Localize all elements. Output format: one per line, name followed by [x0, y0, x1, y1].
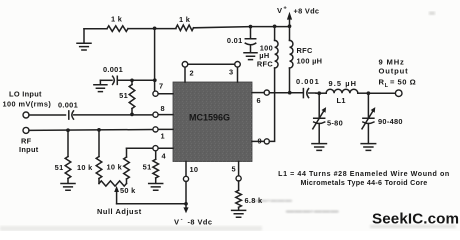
svg-text:——·———: ——·——— [253, 198, 292, 205]
ground (6.8k) [232, 210, 246, 217]
svg-text:90-480: 90-480 [378, 117, 403, 126]
ground (pin4 shunt) [149, 184, 163, 191]
svg-text:V: V [277, 6, 283, 15]
resistor 1 k (right) [176, 25, 194, 31]
wire L1 to node [358, 92, 369, 94]
svg-text:RFC: RFC [257, 59, 273, 68]
svg-text:9.5 µH: 9.5 µH [329, 79, 358, 88]
svg-text:51: 51 [55, 163, 64, 172]
potentiometer 50 k [99, 181, 127, 186]
watermark smudges [253, 198, 339, 216]
svg-text:51: 51 [143, 163, 152, 172]
svg-text:0.01: 0.01 [227, 36, 243, 45]
svg-text:100 mV(rms): 100 mV(rms) [3, 100, 52, 109]
node (10k tap) [97, 128, 101, 132]
wire bridge pins 2-3 [188, 63, 235, 65]
variable capacitor 90-480 [363, 93, 374, 118]
node (51 shunt tap) [66, 128, 70, 132]
node (V- junction) [184, 202, 188, 206]
terminal 9 MHz output [395, 90, 402, 97]
svg-text:50 k: 50 k [120, 186, 136, 195]
wire to output terminal [368, 92, 395, 94]
wire to V+ rail [194, 27, 290, 28]
svg-text:1 k: 1 k [111, 15, 123, 24]
node (V+ / RFC2 tap) [288, 24, 292, 28]
svg-text:0.001: 0.001 [103, 65, 123, 74]
node (pin6 line / RFC2) [288, 91, 292, 95]
wire pin 4 line [127, 147, 153, 149]
variable capacitor 5-80 [314, 93, 325, 118]
pin 4 [158, 147, 174, 149]
svg-text:Input: Input [19, 145, 39, 154]
node (51 bottom on LO line) [130, 113, 134, 117]
svg-text:SeekIC.com: SeekIC.com [372, 210, 459, 227]
svg-text:51: 51 [119, 91, 128, 100]
pin 1 [158, 128, 174, 130]
inductor L1 9.5uH [316, 92, 326, 94]
svg-text:9 MHz: 9 MHz [379, 58, 405, 67]
wire [128, 28, 176, 30]
inductor RFC2 100uH [289, 26, 291, 40]
pin 5 [238, 162, 240, 176]
capacitor 0.001 (pin 7 bypass) [117, 76, 132, 84]
wire cap to pin 8 [74, 114, 153, 116]
capacitor 0.001 (LO coupling) [68, 111, 70, 119]
pin 2 [184, 67, 186, 82]
inductor RFC1 100uH [274, 26, 276, 40]
ground (90-480) [361, 144, 376, 151]
wire pin 10 down [185, 182, 187, 204]
pin 10 [185, 162, 187, 177]
wire bypass line [132, 79, 155, 81]
wire pin 6 to output cap [269, 92, 302, 94]
wire wiper to V- node [117, 203, 186, 205]
svg-text:-: - [181, 217, 183, 223]
svg-text:10 k: 10 k [77, 163, 93, 172]
svg-text:+8 Vdc: +8 Vdc [294, 6, 320, 15]
pin 3 [237, 67, 239, 82]
svg-text:= 50 Ω: = 50 Ω [390, 77, 416, 86]
wire from top junction down to pin 7 [154, 28, 156, 91]
svg-text:8: 8 [161, 104, 165, 113]
node (top junction) [153, 26, 157, 30]
svg-text:LO Input: LO Input [9, 90, 42, 99]
svg-text:10 k: 10 k [107, 163, 123, 172]
ground (pin7 bypass) [99, 80, 101, 84]
svg-text:———·———: ———·——— [286, 207, 339, 216]
svg-text:6: 6 [257, 96, 261, 105]
svg-text:+: + [283, 6, 287, 12]
IC U1 MC1596G body [173, 82, 252, 162]
svg-text:Micrometals Type 44-6 Toroid C: Micrometals Type 44-6 Toroid Core [300, 179, 427, 187]
V- supply arrow [185, 204, 187, 209]
node (0.01 tap) [249, 25, 253, 29]
ground (top-left) [83, 29, 85, 43]
svg-text:10: 10 [190, 165, 199, 174]
resistor 51 (pin8 shunt) [131, 80, 133, 114]
resistor 10 k (right) [126, 148, 128, 183]
svg-text:0.001: 0.001 [58, 101, 78, 110]
svg-text:L1 = 44 Turns #28 Enameled Wir: L1 = 44 Turns #28 Enameled Wire Wound on [278, 170, 450, 178]
svg-text:Null Adjust: Null Adjust [97, 207, 142, 216]
svg-text:RFC: RFC [297, 46, 313, 55]
svg-text:5-80: 5-80 [327, 118, 343, 127]
V+ supply arrow [289, 19, 291, 27]
svg-text:-8 Vdc: -8 Vdc [188, 218, 213, 227]
svg-text:2: 2 [190, 68, 194, 77]
node (51 top) [130, 78, 134, 82]
svg-text:0.001: 0.001 [296, 77, 320, 86]
capacitor 0.001 (output coupling) [302, 89, 304, 98]
pin 7 [158, 93, 174, 95]
svg-text:V: V [174, 218, 180, 227]
node (5-80 tap) [317, 91, 321, 95]
wire RF to pin 1 [29, 129, 153, 132]
wire LO to coupling cap [29, 114, 66, 116]
capacitor 0.01 bypass [245, 27, 255, 39]
svg-text:3: 3 [229, 68, 233, 77]
wiper arrow [116, 190, 118, 204]
resistor 51 (pin 4 shunt) [155, 151, 157, 183]
svg-text:Output: Output [379, 67, 409, 76]
node (pin7/bypass junction) [153, 78, 157, 82]
pin 9 [252, 140, 264, 142]
svg-text:1 k: 1 k [179, 15, 191, 24]
svg-text:L: L [385, 83, 389, 89]
resistor 10 k (left) [98, 130, 100, 184]
svg-text:L1: L1 [337, 96, 346, 105]
svg-text:9: 9 [258, 137, 262, 146]
node (RFC1 tap) [273, 24, 277, 28]
svg-text:4: 4 [162, 152, 167, 161]
resistor 6.8 k [238, 181, 240, 210]
svg-text:R: R [379, 77, 385, 86]
svg-text:100 µH: 100 µH [297, 56, 323, 65]
node (90-480 tap) [367, 91, 371, 95]
svg-text:7: 7 [159, 82, 163, 91]
wire pin 9 up to RFC1 [269, 68, 274, 141]
ground (0.01) [244, 53, 257, 60]
svg-text:1: 1 [161, 132, 165, 141]
pin 8 [158, 114, 174, 116]
pin 6 [252, 92, 264, 94]
ground (RF shunt) [61, 184, 75, 191]
resistor 51 (RF shunt) [67, 130, 69, 183]
wire top rail left segment [84, 28, 107, 30]
terminal RF input [23, 127, 29, 133]
ground (5-80) [312, 144, 327, 151]
svg-text:5: 5 [232, 164, 236, 173]
terminal LO input [23, 112, 29, 118]
resistor 1 k (left) [107, 26, 128, 32]
svg-text:MC1596G: MC1596G [189, 113, 230, 123]
